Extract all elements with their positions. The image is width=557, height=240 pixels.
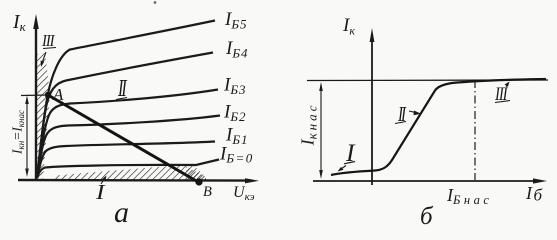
region label III (graph b) with arrow bbox=[494, 82, 510, 105]
dash-dot line at IBnas bbox=[474, 80, 476, 180]
svg-text:I: I bbox=[95, 181, 106, 205]
svg-text:а: а bbox=[114, 196, 129, 228]
y-axis Ik (graph b) bbox=[370, 28, 375, 185]
region label I (graph a) with arrow bbox=[95, 176, 107, 205]
svg-text:IБ4: IБ4 bbox=[225, 38, 249, 61]
svg-text:Iб: Iб bbox=[525, 183, 543, 205]
dimension line Iknas (graph b) bbox=[319, 82, 323, 179]
svg-text:В: В bbox=[203, 184, 212, 200]
point A bbox=[45, 92, 51, 98]
svg-text:Uкэ: Uкэ bbox=[233, 184, 255, 203]
tick at level of A bbox=[21, 94, 47, 97]
dimension line Ikn (graph a) bbox=[25, 96, 29, 178]
region label II (graph b) with arrow bbox=[395, 103, 421, 126]
x-axis Uke (graph a) bbox=[18, 178, 259, 183]
curve IB3 bbox=[37, 90, 218, 179]
svg-text:Iкнас: Iкнас bbox=[298, 103, 320, 147]
curve IB2 bbox=[37, 116, 220, 179]
curve IB=0 bbox=[37, 160, 219, 179]
svg-text:IБ1: IБ1 bbox=[225, 125, 249, 148]
region label III (graph a) with arrow bbox=[41, 32, 56, 67]
curve IB5 bbox=[37, 21, 215, 179]
point B bbox=[195, 178, 202, 185]
svg-text:Iк: Iк bbox=[12, 11, 27, 34]
svg-text:IБнас: IБнас bbox=[446, 185, 492, 207]
load line A-B bbox=[48, 95, 199, 183]
x-axis Ib (graph b) bbox=[313, 178, 547, 183]
region label II (graph a) bbox=[116, 73, 127, 102]
svg-text:IБ5: IБ5 bbox=[224, 9, 248, 32]
curve IB1 bbox=[37, 142, 215, 179]
transfer curve (graph b) bbox=[331, 79, 546, 175]
svg-text:A: A bbox=[52, 85, 64, 104]
curve IB4 bbox=[37, 53, 213, 179]
svg-text:IБ2: IБ2 bbox=[223, 102, 247, 125]
saturation level line (graph b) bbox=[307, 79, 548, 82]
hatched cutoff region I wedge (graph a) bbox=[55, 164, 206, 181]
svg-text:б: б bbox=[420, 203, 434, 228]
region label I (graph b) with arrow bbox=[338, 138, 357, 172]
svg-text:Iк: Iк bbox=[342, 15, 355, 38]
svg-text:IБ3: IБ3 bbox=[223, 75, 247, 98]
svg-text:Iкн=Iкнас: Iкн=Iкнас bbox=[10, 110, 27, 155]
y-axis Ik (graph a) bbox=[33, 14, 39, 180]
hatched saturation region III strip (graph a) bbox=[37, 53, 50, 179]
dense hatch near point B bbox=[186, 167, 206, 182]
speck top center bbox=[154, 1, 157, 4]
